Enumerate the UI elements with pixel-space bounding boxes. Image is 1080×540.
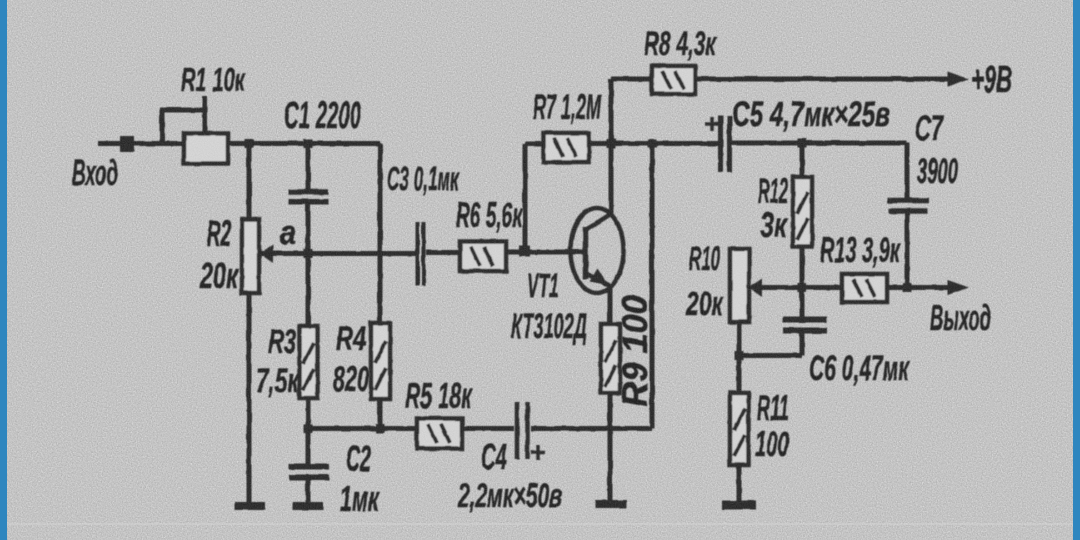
resistor R13 <box>842 274 887 302</box>
blue frame left <box>0 0 7 540</box>
resistor R10 wiper arrow <box>749 279 762 297</box>
junction dot R4 bottom <box>376 424 385 433</box>
junction dot feedback top <box>648 139 657 148</box>
resistor R12 <box>793 177 812 247</box>
wire R2 bottom to ground <box>247 293 252 503</box>
junction dot R3 bottom <box>304 424 313 433</box>
capacitor C5 plates <box>718 116 723 172</box>
wire R7 left lead <box>525 142 543 147</box>
transistor VT1 emitter arrow <box>590 269 609 286</box>
capacitor C6 plates <box>783 317 827 323</box>
junction dot R2 branch <box>245 139 254 148</box>
ground bar C2 <box>293 502 323 510</box>
junction dot base R7 <box>519 246 530 257</box>
wire R3 bottom to C2 <box>306 398 311 464</box>
wire R7 left riser <box>523 144 528 252</box>
wire R2 top lead <box>247 144 252 220</box>
ground bar R2 <box>235 502 265 510</box>
wire output row <box>756 285 948 290</box>
resistor R11 <box>730 393 749 465</box>
resistor R10 (pot body) <box>730 249 749 322</box>
wire input run <box>98 141 184 146</box>
wire collector lead <box>609 144 614 216</box>
wire corner down to R4 <box>378 144 383 324</box>
capacitor C4 plus sign <box>531 451 545 455</box>
wire C6 bottom stub <box>800 333 805 356</box>
ground bar R9 <box>595 500 627 508</box>
wire R6 to base <box>506 250 584 255</box>
junction dot R12 bottom <box>798 283 807 292</box>
wire R12 bottom lead <box>800 247 805 288</box>
wire C6 top lead <box>800 288 805 318</box>
wire C1 bottom / R3 top <box>306 204 311 326</box>
wire C5 right run <box>732 141 907 146</box>
wire bottom feedback run left <box>308 426 514 431</box>
wire R10 bottom lead <box>737 322 742 356</box>
junction dot C1 top <box>304 139 313 148</box>
capacitor C5 plus sign <box>705 122 719 126</box>
wire C6 bottom row <box>739 353 802 358</box>
input terminal <box>120 136 134 152</box>
resistor R3 <box>300 326 318 398</box>
wire R11 bottom to ground <box>737 465 742 504</box>
wire C2 bottom to ground <box>306 480 311 503</box>
arrow output <box>948 280 970 295</box>
wire R11 top lead <box>737 356 742 394</box>
junction dot collector node <box>607 139 616 148</box>
ground bar R11 <box>722 501 756 510</box>
resistor R3 hatch <box>303 343 314 364</box>
resistor R9 <box>601 324 620 393</box>
resistor R12 hatch <box>797 192 808 214</box>
wire R8 left lead <box>611 77 652 82</box>
wire C3 to R6 <box>426 250 460 255</box>
wire R8 right to +9V <box>695 77 950 82</box>
capacitor C7 plates <box>888 198 930 204</box>
resistor R7 hatch <box>554 138 563 157</box>
resistor R8 hatch <box>662 71 671 89</box>
wire R7 right to C5 <box>589 141 718 146</box>
arrow +9V <box>948 72 970 87</box>
capacitor C4 plates <box>515 402 520 459</box>
resistor R6 <box>460 242 506 272</box>
junction dot C7 bottom <box>903 283 912 292</box>
resistor R5 <box>417 419 462 449</box>
wire R1 wiper loop <box>162 110 205 144</box>
resistor R1 (trimmer body) <box>184 134 228 164</box>
transistor VT1 collector diagonal <box>587 215 610 230</box>
junction dot R12 top <box>798 139 807 148</box>
junction dot node a <box>304 249 313 258</box>
capacitor C1 plates <box>289 189 329 195</box>
wire R1 wiper stem <box>203 96 208 134</box>
capacitor C2 plates <box>289 464 329 470</box>
wire emitter lead <box>608 284 613 324</box>
wire R4 bottom lead <box>378 399 383 429</box>
wire feedback riser <box>650 144 655 429</box>
faint scan line bottom <box>0 523 1080 525</box>
resistor R7 <box>544 133 590 162</box>
wire R2 wiper row (node a) <box>261 251 416 256</box>
wire C1 top lead <box>306 144 311 191</box>
resistor R4 <box>371 323 390 399</box>
resistor R11 hatch <box>734 409 745 430</box>
resistor R2 (pot body) <box>242 219 259 293</box>
wire R9 bottom to ground <box>608 393 613 502</box>
resistor R2 wiper arrow <box>260 245 273 263</box>
resistor R13 hatch <box>853 279 862 297</box>
transistor VT1 base bar <box>583 227 589 279</box>
resistor R5 hatch <box>428 424 437 443</box>
junction dot R10 bottom <box>735 351 744 360</box>
wire top run R1 to corner <box>228 141 380 146</box>
transistor VT1 emitter diagonal <box>587 274 609 286</box>
wire bottom feedback run right <box>531 426 652 431</box>
resistor R9 hatch <box>605 340 616 362</box>
resistor R8 <box>652 66 695 94</box>
wire R8 left riser <box>609 79 614 144</box>
capacitor C3 plates <box>416 222 420 286</box>
resistor R4 hatch <box>375 341 386 363</box>
wire R12 top lead <box>800 143 805 177</box>
wire C7 bottom lead <box>905 213 910 288</box>
blue frame right <box>1073 0 1080 540</box>
transistor VT1 circle <box>571 208 624 293</box>
wire C7 top lead <box>905 143 910 198</box>
resistor R6 hatch <box>471 247 480 266</box>
